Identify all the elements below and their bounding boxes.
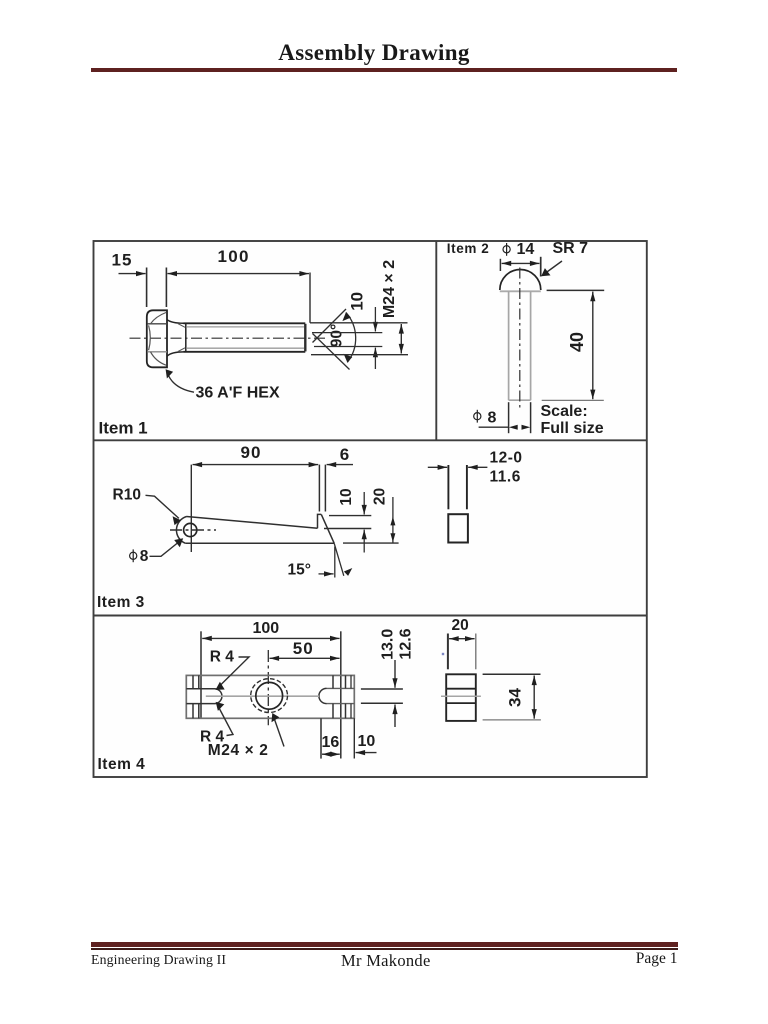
phi symbol of dia 14 [503, 246, 510, 253]
leader R4 bottom arrowhead [216, 702, 225, 711]
shank wall left [508, 291, 510, 400]
chamfer 15deg edge [321, 514, 334, 543]
svg-text:36 AʹF HEX: 36 AʹF HEX [196, 385, 280, 402]
svg-text:Item 1: Item 1 [99, 419, 148, 438]
side view line upper [446, 688, 476, 690]
right edge extension [353, 718, 355, 758]
dim line 100 [202, 637, 339, 639]
svg-text:M24 × 2: M24 × 2 [381, 260, 398, 318]
thread runout line start [185, 323, 187, 352]
divider item3/item4 [94, 615, 647, 617]
right slot top wall [327, 687, 355, 689]
thread root line bottom [187, 347, 304, 349]
leader SR7 [544, 261, 563, 275]
ext line 40 top [547, 289, 605, 291]
ext line 40 bottom [542, 399, 604, 401]
svg-text:10: 10 [347, 292, 366, 311]
thread runout hatch bottom [178, 348, 185, 352]
outer figure frame [94, 241, 647, 777]
footer left text [91, 952, 226, 968]
svg-text:M24 × 2: M24 × 2 [208, 742, 269, 759]
dim line 100 [167, 273, 309, 275]
leader 36 AF HEX [168, 375, 194, 393]
extension line left of head [146, 268, 148, 308]
slot end line c [332, 675, 334, 718]
dim line 20 [449, 638, 475, 640]
svg-text:50: 50 [293, 639, 314, 658]
leader M24 arrowhead [272, 713, 280, 722]
slot end line d [345, 675, 347, 718]
head facet line lower [147, 351, 167, 353]
leader R4 bottom [218, 705, 234, 736]
left slot top wall [186, 688, 214, 690]
svg-text:R10: R10 [113, 486, 141, 503]
dia8 arrow right [522, 425, 531, 430]
chamfer angle diagonal upper [313, 309, 347, 343]
leader R4 top arrowhead [216, 682, 225, 690]
leader R10 [146, 495, 179, 518]
ref line 15deg [334, 547, 336, 578]
neck fillet bottom [167, 352, 184, 356]
svg-text:10: 10 [338, 488, 355, 505]
svg-text:40: 40 [567, 332, 587, 352]
ext line chamfer top [312, 332, 382, 334]
leader dia8 [150, 540, 182, 556]
ext line left (hole centre) [190, 465, 192, 552]
footer right text [560, 950, 678, 968]
end view slot line right [466, 465, 468, 509]
dim line 34 [533, 676, 535, 719]
thread inner circle [256, 682, 283, 709]
dim line 10 upper segment [374, 307, 376, 332]
dim line M24 [400, 324, 402, 354]
svg-text:90°: 90° [329, 324, 346, 347]
dim line 10 lower segment [374, 348, 376, 369]
neck fillet top [167, 320, 184, 324]
dim line 10 lower [363, 530, 365, 553]
leader M24 [274, 717, 285, 747]
bolt end face [304, 324, 306, 352]
svg-text:11.6: 11.6 [490, 468, 521, 485]
angle arc 90 [346, 312, 356, 362]
blue speck artifact [442, 653, 444, 655]
dim 20 arrow up [390, 517, 395, 526]
svg-text:20: 20 [452, 617, 469, 634]
svg-text:34: 34 [506, 688, 525, 707]
thread root line top [187, 326, 304, 328]
thread outer circle [251, 679, 288, 713]
svg-text:Scale:: Scale: [541, 403, 588, 420]
svg-text:15: 15 [112, 251, 133, 270]
side view line lower [446, 702, 476, 704]
ext line 100 right [340, 631, 342, 758]
dim 13 upper line [394, 660, 396, 688]
ext line top edge right [324, 528, 371, 530]
ext line 34 top [483, 673, 541, 675]
svg-text:20: 20 [372, 488, 389, 505]
svg-text:SR 7: SR 7 [553, 240, 589, 257]
ext line M24 bottom [311, 354, 408, 356]
svg-text:14: 14 [517, 241, 535, 258]
angle arc arrowhead top [342, 312, 351, 321]
side view ext 20 right [475, 634, 477, 670]
left slot end cap [215, 689, 222, 704]
footer thin rule [91, 948, 678, 950]
footer thick rule [91, 942, 678, 947]
end view rectangle [448, 514, 468, 542]
shank bottom edge [184, 351, 306, 353]
plate outline [186, 675, 354, 718]
dim line 40 [592, 292, 594, 400]
svg-text:Item 3: Item 3 [97, 594, 145, 611]
head facet line upper [147, 323, 167, 325]
svg-text:8: 8 [488, 409, 497, 426]
svg-text:100: 100 [218, 247, 250, 266]
slot end line e [350, 675, 352, 718]
leader R10 arrowhead [173, 516, 181, 525]
side view centerline [441, 695, 481, 697]
ext line dia8 left [508, 402, 510, 433]
hole centerline vertical [267, 650, 269, 725]
rivet dome head [500, 270, 541, 291]
head middle facet arc [149, 325, 151, 350]
plate mid centerline [206, 695, 319, 697]
dim 13 lower line [394, 705, 396, 728]
ext line 100 left [200, 631, 202, 718]
nib rise [318, 514, 322, 528]
ext line 16 [320, 718, 322, 758]
note dia 8 phi [130, 552, 137, 559]
dim line 20 [392, 497, 394, 543]
svg-text:8: 8 [140, 548, 149, 565]
rivet centerline [519, 268, 521, 411]
header rule [91, 68, 677, 73]
head base line [500, 290, 541, 292]
extension line washer face [165, 268, 167, 308]
chamfer extension below [334, 543, 344, 576]
extension line bolt tip [309, 273, 311, 323]
ext line 34 bottom [483, 719, 541, 721]
hole centerline horizontal [170, 529, 216, 531]
leader SR7 arrowhead [541, 268, 550, 276]
thread runout hatch top [178, 324, 185, 328]
left slot bottom wall [186, 703, 214, 705]
leader 15deg arrow [319, 573, 334, 575]
leader dia8 arrowhead [174, 538, 183, 547]
dim 20 arrow down [390, 533, 395, 542]
cotter bottom edge [185, 542, 334, 544]
bolt centerline [130, 337, 329, 339]
slot end line a [192, 675, 194, 718]
dim line 90 [193, 464, 319, 466]
chamfer angle diagonal lower [313, 334, 350, 370]
svg-text:Item 4: Item 4 [98, 756, 146, 773]
ext line chamfer bottom [314, 346, 382, 348]
ext line 13 bottom [361, 702, 403, 704]
ext line 13 top [361, 688, 403, 690]
ext line nib right [324, 465, 326, 512]
ext line dia8 right [530, 402, 532, 433]
dia8 arrow left [509, 425, 518, 430]
ext line nib left [318, 465, 320, 512]
svg-text:12-0: 12-0 [490, 450, 523, 467]
right slot bottom wall [327, 703, 355, 705]
svg-text:13.0: 13.0 [379, 629, 396, 660]
shank wall right [530, 291, 532, 400]
hole dia 8 [184, 523, 197, 536]
svg-text:90: 90 [241, 443, 262, 462]
svg-text:R 4: R 4 [210, 649, 235, 666]
dim line 10 upper [363, 492, 365, 515]
svg-text:Full size: Full size [541, 420, 604, 437]
hex head outline [147, 310, 167, 367]
dim leader 15 [119, 273, 146, 275]
svg-text:12.6: 12.6 [398, 628, 415, 659]
cotter top edge [187, 517, 318, 529]
dim line dia8 [479, 426, 508, 428]
leader arrowhead [166, 369, 174, 378]
right slot end cap [319, 688, 327, 703]
side view outline [446, 674, 476, 721]
phi symbol of dia 8 [474, 413, 481, 420]
svg-text:6: 6 [340, 445, 349, 464]
ext line dia14 left [499, 259, 501, 271]
width arrow right [468, 466, 487, 468]
ext line dia14 right [540, 257, 542, 277]
angle arc arrowhead bottom [344, 354, 353, 363]
dim line 16 [322, 753, 340, 755]
leader R4 top [218, 657, 249, 688]
end view slot line left [447, 465, 449, 509]
shank bottom [509, 399, 531, 401]
dim leader 6 [327, 464, 353, 466]
dim line dia14 [502, 262, 540, 264]
svg-text:16: 16 [322, 734, 340, 751]
dim leader 10 [356, 752, 377, 754]
dim line 50 [270, 657, 340, 659]
shank top edge [184, 322, 306, 324]
slot end line b [198, 675, 200, 718]
footer center text [341, 951, 431, 971]
svg-text:15°: 15° [288, 562, 311, 579]
head chamfer arc bottom [151, 352, 167, 365]
ext line bottom edge right [343, 542, 399, 544]
page title [0, 40, 748, 66]
side view ext 20 left [447, 634, 449, 670]
ext line M24 top [310, 322, 408, 324]
svg-text:100: 100 [253, 620, 280, 637]
cotter round end R10 [176, 517, 186, 544]
width arrow left [428, 466, 447, 468]
svg-text:10: 10 [358, 733, 376, 750]
head chamfer arc top [151, 313, 167, 324]
divider items/item3 [94, 439, 647, 441]
divider item1/item2 [435, 241, 437, 440]
svg-text:Item 2: Item 2 [447, 241, 490, 256]
arrow onto chamfer [344, 568, 352, 576]
ext line nib top right [329, 515, 371, 517]
